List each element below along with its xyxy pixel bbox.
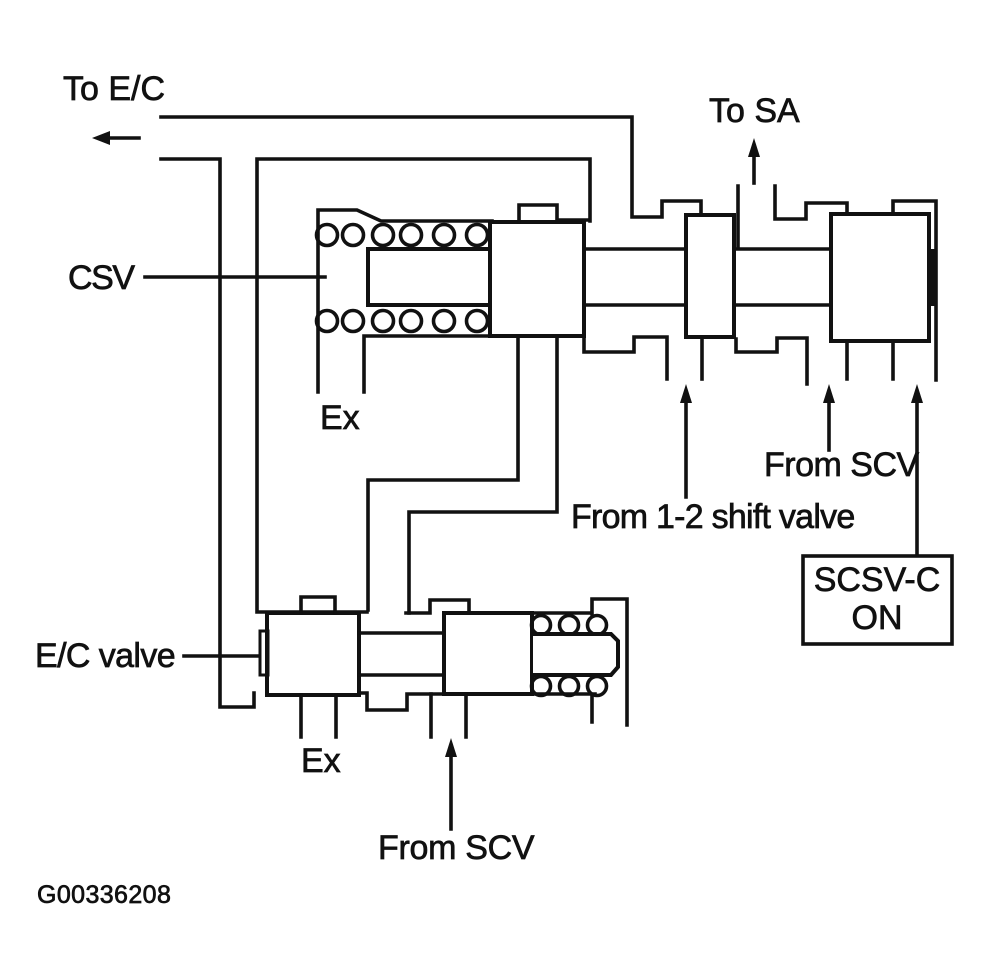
valve shift valve land2 — [686, 215, 734, 337]
svg-text:From SCV: From SCV — [378, 829, 535, 867]
wire channel CSV piston bottom to E/C valve right leg — [409, 336, 557, 613]
valve CSV bore left wall and top edge — [318, 210, 492, 392]
svg-text:Ex: Ex — [320, 399, 360, 437]
valve E/C land1 top tab — [301, 597, 335, 613]
spring CSV bottom coil — [317, 311, 338, 332]
svg-text:ON: ON — [852, 599, 903, 637]
wire E/C Ex port legs — [301, 695, 336, 737]
wire SCSV-C box to valve line — [915, 398, 919, 556]
wire E/C spring housing right wall — [532, 599, 627, 725]
spring E/C top coil — [532, 616, 551, 635]
valve E/C land2 — [444, 613, 532, 694]
wire E/C port legs — [431, 694, 466, 737]
svg-text:To SA: To SA — [709, 92, 800, 130]
wire bore top right end — [893, 201, 936, 380]
valve CSV bore bottom edge and Ex leg — [364, 336, 492, 392]
node To SA arrowhead — [748, 138, 760, 157]
wire bore bottom castellation left of From 1-2 port — [584, 336, 667, 379]
wire E/C bore bottom right under spring — [532, 694, 595, 722]
wire E/C bore bottom castellation — [359, 693, 444, 710]
valve shift valve land3 — [831, 214, 929, 341]
valve E/C land1 — [267, 613, 359, 695]
node E/C valve label line — [184, 654, 259, 658]
node From SCV right arrow — [827, 398, 831, 450]
svg-text:CSV: CSV — [68, 259, 135, 297]
node From 1-2 shift valve arrowhead — [680, 384, 692, 403]
svg-text:To E/C: To E/C — [63, 70, 165, 108]
svg-text:E/C valve: E/C valve — [35, 637, 175, 675]
wire To SA port right wall and bore top castellation — [775, 186, 847, 219]
wire port leg under land2 — [700, 339, 704, 379]
wire spool stem land2 to land3 — [734, 249, 831, 305]
valve CSV piston top tab — [519, 205, 588, 222]
node From 1-2 shift valve arrow — [684, 398, 688, 497]
node CSV label line — [145, 275, 325, 279]
wire To E/C channel top wall — [161, 117, 701, 217]
wire To E/C channel bottom wall right + inner left channel wall + E/C valve bore top — [257, 159, 590, 612]
spring E/C retainer — [533, 634, 618, 675]
node From SCV bottom arrow — [449, 752, 453, 829]
svg-text:G00336208: G00336208 — [37, 881, 171, 909]
valve spool end plug — [927, 249, 936, 306]
valve E/C land1 left tab — [260, 631, 268, 675]
spring CSV top coil — [317, 225, 338, 246]
wire channel CSV piston bottom to E/C valve left leg — [368, 336, 518, 610]
wire spool stem piston to land2 — [584, 249, 686, 305]
svg-text:From 1-2 shift valve: From 1-2 shift valve — [571, 498, 855, 536]
spring CSV retainer — [368, 249, 490, 305]
node SCSV-C arrowhead — [911, 384, 923, 403]
svg-text:SCSV-C: SCSV-C — [814, 561, 941, 599]
node From SCV right arrowhead — [823, 384, 835, 403]
wire E/C spool stems — [359, 633, 444, 675]
wire To E/C channel bottom wall left + left vertical channel outer wall — [161, 159, 254, 707]
node From SCV bottom arrowhead — [445, 738, 457, 757]
svg-text:From SCV: From SCV — [764, 446, 920, 484]
box SCSV-C ON — [803, 556, 952, 644]
node To E/C arrow — [106, 136, 139, 140]
svg-text:Ex: Ex — [301, 742, 341, 780]
node To SA arrow — [752, 153, 756, 183]
wire port legs under land3 — [847, 343, 893, 379]
spring E/C bottom coil — [532, 677, 551, 696]
wire bore bottom castellation right of land2 — [736, 338, 807, 384]
valve E/C bore top right segment with notch — [406, 600, 469, 613]
node To E/C arrowhead — [92, 131, 110, 145]
wire To SA port left wall — [736, 186, 740, 247]
valve CSV piston land — [490, 222, 584, 336]
